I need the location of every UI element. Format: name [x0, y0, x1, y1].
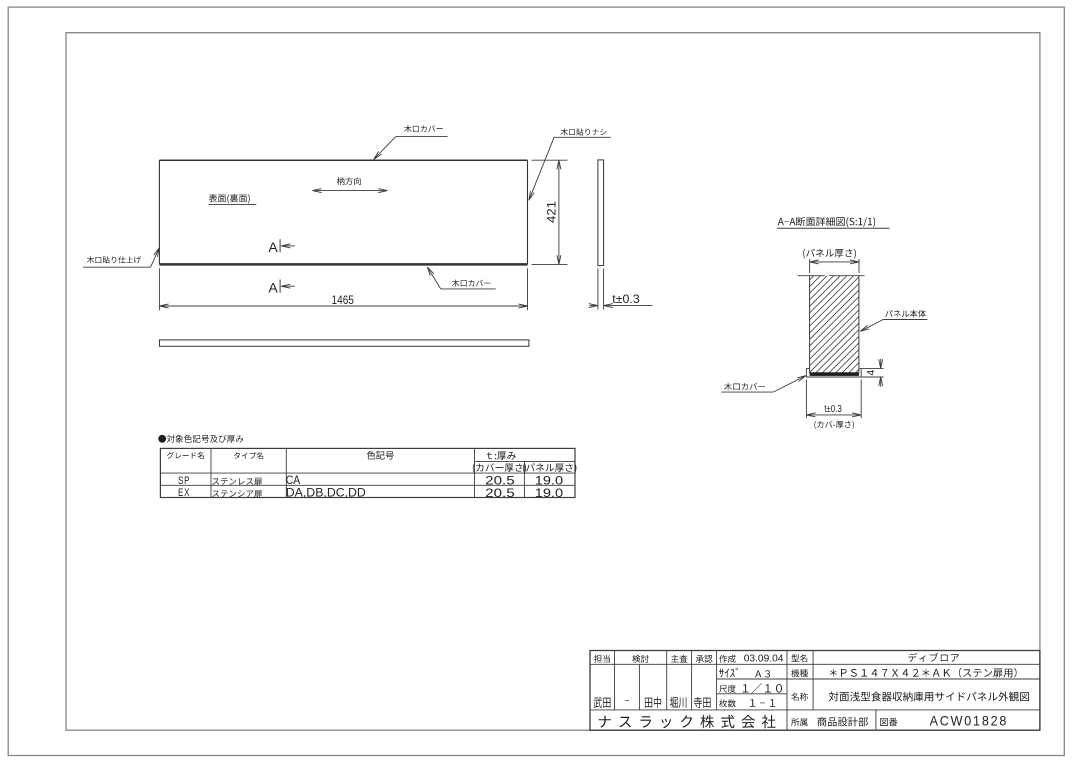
value 1/10 [743, 683, 782, 694]
label 表面（裏面） [209, 194, 257, 204]
value ディブロア [908, 653, 959, 662]
color code table grid [160, 448, 575, 497]
svg-text:03.09.04: 03.09.04 [744, 654, 784, 665]
label 図番 [880, 718, 897, 726]
dimension t±0.3 (side view) [589, 269, 652, 310]
label 尺度 [719, 685, 736, 693]
label 名称 [791, 693, 808, 701]
title block grid [590, 651, 1040, 731]
sign 武田 [594, 697, 611, 708]
svg-text:4: 4 [865, 370, 877, 376]
dimension t±0.3 (section) [806, 380, 861, 419]
value 商品設計部 [818, 717, 868, 727]
dimension 421 [532, 160, 568, 264]
section mark A (lower) [268, 279, 294, 295]
value ＊ＰＳ１４７Ｘ４２＊ＡＫ（ステン扉用） [830, 668, 1017, 678]
break line at section top [798, 275, 865, 277]
cell ステンシア扉 [212, 490, 262, 498]
sign - [625, 699, 629, 702]
panel body hatched section [710, 270, 1071, 380]
label 作成 [719, 655, 736, 663]
leader 木口貼りナシ (right edge) [529, 128, 611, 200]
grain direction double arrow [312, 189, 387, 193]
section mark A (upper) [268, 239, 294, 255]
svg-text:t±0.3: t±0.3 [612, 292, 640, 306]
svg-text:1465: 1465 [332, 293, 354, 307]
table header タイプ名 [234, 452, 263, 459]
sign 寺田 [694, 697, 711, 708]
header 主査 [671, 655, 687, 663]
svg-text:CA: CA [286, 475, 301, 487]
svg-text:A: A [268, 239, 278, 255]
svg-text:A: A [268, 279, 278, 295]
leader 木口カバー (section) [721, 376, 806, 393]
label (カバー厚さ) below [814, 421, 854, 429]
svg-text:ACW01828: ACW01828 [930, 713, 1009, 729]
svg-text:t±0.3: t±0.3 [824, 404, 842, 415]
grain direction label 柄方向 [337, 177, 361, 185]
label 機種 [791, 669, 808, 677]
table header (パネル厚さ) [523, 463, 576, 473]
header 承認 [696, 655, 713, 663]
svg-text:20.5: 20.5 [485, 486, 515, 500]
panel front view outline [159, 160, 527, 264]
value A3 [755, 670, 770, 677]
label 所属 [791, 718, 807, 726]
table header グレード名 [167, 452, 204, 459]
leader 木口カバー (bottom edge) [427, 267, 495, 289]
cell ステンレス扉 [212, 478, 262, 486]
dimension 1465 [159, 268, 527, 310]
company name ナスラック株式会社 [599, 715, 776, 728]
section title A-A断面詳細図(S:1/1) [777, 217, 889, 229]
bottom edge strip view [159, 340, 529, 346]
header 担当 [594, 655, 610, 663]
table heading ●対象色記号及び厚み [158, 435, 243, 443]
leader 木口貼り仕上げ (left edge) [83, 248, 159, 268]
sign 田中 [645, 697, 661, 708]
svg-text:DA,DB,DC,DD: DA,DB,DC,DD [286, 488, 366, 500]
svg-text:19.0: 19.0 [535, 486, 564, 500]
svg-text:SP: SP [178, 475, 190, 487]
table row SP [178, 475, 190, 487]
sign 堀川 [670, 697, 687, 708]
header 検討 [632, 655, 649, 663]
dimension パネル厚さ [810, 259, 859, 273]
table header (カバー厚さ) [473, 463, 526, 473]
label 型名 [791, 654, 807, 662]
edge cover (section, black bar) [806, 368, 861, 377]
label サイズ [719, 668, 738, 678]
leader 木口カバー (top edge) [374, 125, 448, 159]
table header 色記号 [367, 451, 394, 460]
panel side view (thin bar) [598, 160, 604, 266]
label (パネル厚さ) [803, 249, 856, 259]
table header t:厚み [487, 452, 516, 461]
leader パネル本体 [860, 310, 927, 332]
dimension 4 (cover thickness) [861, 359, 883, 387]
svg-text:421: 421 [545, 201, 559, 223]
label 枚数 [719, 699, 736, 707]
value 1-1 [750, 699, 775, 707]
svg-text:EX: EX [178, 487, 190, 499]
value 対面浅型食器収納庫用サイドパネル外観図 [829, 692, 1029, 702]
